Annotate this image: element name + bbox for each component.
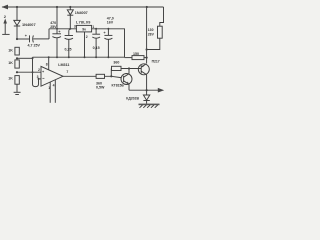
regulator U2 L78L09 box bbox=[76, 25, 91, 32]
svg-text:1K: 1K bbox=[8, 61, 13, 65]
capacitor C3 0,25 bbox=[69, 29, 71, 30]
capacitor C2 470 25V bbox=[56, 7, 58, 34]
wire R5 to Q2 base bbox=[121, 68, 141, 70]
svg-text:+: + bbox=[42, 70, 45, 74]
wire lamp bottom to node bbox=[147, 38, 160, 49]
svg-text:25V: 25V bbox=[50, 25, 57, 29]
resistor R6 150 bbox=[132, 56, 144, 60]
svg-text:1: 1 bbox=[48, 86, 50, 90]
chassis ground bbox=[139, 104, 160, 106]
label - input bbox=[42, 77, 44, 79]
svg-text:1N4007: 1N4007 bbox=[22, 22, 36, 27]
wire tap2 to op-amp pin2 bbox=[16, 71, 41, 73]
op-amp U1 LM311 bbox=[41, 66, 63, 86]
wire tap1 bbox=[17, 57, 33, 59]
resistor R1 1K bbox=[15, 47, 19, 55]
wire pin4 bbox=[54, 80, 56, 103]
svg-text:2: 2 bbox=[4, 14, 7, 19]
svg-text:2: 2 bbox=[86, 35, 88, 39]
transistor Q1 KT815 bbox=[121, 74, 132, 85]
node dot 147,90.2 bbox=[146, 89, 148, 91]
svg-text:1: 1 bbox=[92, 25, 94, 29]
svg-text:360: 360 bbox=[113, 60, 119, 64]
svg-text:16V: 16V bbox=[107, 21, 114, 25]
svg-text:4,7 25V: 4,7 25V bbox=[28, 44, 41, 48]
resistor 130 28V bbox=[158, 26, 163, 38]
svg-text:+: + bbox=[25, 34, 28, 38]
svg-text:150: 150 bbox=[133, 52, 139, 56]
diode D3 KD202V bbox=[146, 90, 148, 95]
diode D2 1N4007 bbox=[69, 6, 71, 8]
diode D1 1N4007 left bbox=[16, 6, 18, 8]
wire stub to R5 bbox=[110, 68, 112, 76]
wire to cap 4,7 bbox=[17, 38, 30, 40]
svg-text:П217: П217 bbox=[152, 59, 160, 63]
svg-text:8: 8 bbox=[46, 62, 48, 66]
svg-text:2: 2 bbox=[38, 68, 40, 72]
resistor R5 360 bbox=[112, 66, 122, 70]
node dot Q1 collector bbox=[128, 67, 130, 69]
wire pin3 bbox=[39, 78, 42, 80]
wire right edge drop to lamp R bbox=[160, 7, 164, 26]
resistor R4 360 0,5W bbox=[96, 74, 104, 78]
wire bottom rail with arrow bbox=[129, 89, 161, 91]
resistor R2 1K bbox=[15, 60, 19, 68]
resistor R3 1K bbox=[15, 76, 19, 85]
capacitor C5 47,0 16V bbox=[107, 28, 109, 30]
wire op-amp output pin7 bbox=[63, 75, 96, 77]
svg-text:4: 4 bbox=[53, 83, 55, 87]
svg-text:130: 130 bbox=[148, 28, 154, 32]
transistor Q2 P217 bbox=[138, 64, 149, 75]
wire regulator output bbox=[92, 29, 125, 57]
wire vertical supply to Q2 bbox=[146, 7, 148, 63]
node dot top rail x147 bbox=[146, 6, 148, 8]
capacitor C4 0,15 bbox=[95, 28, 97, 30]
svg-text:0,15: 0,15 bbox=[93, 46, 100, 50]
node dot top rail x57 bbox=[56, 6, 58, 8]
svg-text:+: + bbox=[103, 30, 106, 35]
wire top rail bbox=[2, 6, 164, 8]
svg-text:0,25: 0,25 bbox=[65, 47, 72, 51]
node dot R2/R3 bbox=[16, 71, 18, 73]
node A dot 17,39 bbox=[16, 38, 18, 40]
svg-text:КД202В: КД202В bbox=[126, 96, 139, 100]
wire mid ground rail bbox=[33, 56, 125, 58]
wire pin8 bbox=[48, 57, 50, 70]
svg-text:9v: 9v bbox=[82, 27, 86, 31]
wire R3 to ground bbox=[16, 84, 18, 92]
wire left bend to pin3 bbox=[33, 57, 39, 86]
svg-text:28V: 28V bbox=[148, 33, 155, 37]
node dot 147,57.5 bbox=[146, 57, 148, 59]
svg-text:LM311: LM311 bbox=[58, 63, 69, 67]
wire pin1 bbox=[49, 82, 51, 103]
capacitor C1 4,7 25V bbox=[29, 35, 31, 42]
svg-text:0,5W: 0,5W bbox=[96, 85, 105, 89]
svg-text:L78L09: L78L09 bbox=[76, 20, 91, 24]
wire regulator input line bbox=[49, 28, 77, 30]
node dot 111.4,79 bbox=[110, 75, 112, 77]
arrow input terminal 2 bbox=[2, 33, 9, 35]
node dot R1/R2 bbox=[16, 57, 18, 59]
ground left bbox=[14, 91, 21, 93]
arrow left terminal of top rail bbox=[2, 5, 9, 10]
node dot 147,50 bbox=[146, 48, 148, 50]
svg-text:1K: 1K bbox=[8, 49, 13, 53]
svg-text:1N4007: 1N4007 bbox=[75, 11, 88, 15]
svg-text:1K: 1K bbox=[8, 77, 13, 81]
svg-text:3: 3 bbox=[37, 75, 39, 79]
svg-text:3: 3 bbox=[74, 24, 76, 28]
svg-text:7: 7 bbox=[66, 70, 68, 74]
svg-text:КТ815Б: КТ815Б bbox=[112, 84, 125, 88]
wire regulator ground pin2 bbox=[84, 32, 86, 57]
